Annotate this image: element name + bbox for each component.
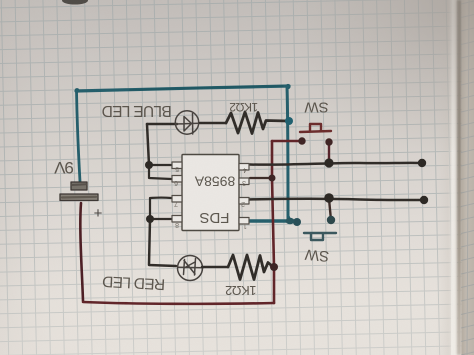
LED D1 blue circle (175, 111, 198, 134)
resistor R2 zigzag (228, 255, 272, 280)
node junction pins 5-6 (145, 161, 153, 169)
top edge smudge (62, 0, 88, 5)
labels (photo is upside-down: rotate each 180deg) (53, 99, 329, 298)
wire blue-led left corner (147, 124, 149, 165)
wire LED to resistor R1 (200, 122, 226, 125)
wire teal top rail (76, 86, 289, 91)
wire pin8 (150, 218, 172, 220)
LED D2 symbol (178, 259, 203, 276)
node SW1 terminal right (325, 138, 332, 145)
node SW2 stub on pin2 line (324, 193, 334, 203)
wire pin6 U (149, 165, 171, 179)
page crease (457, 0, 462, 355)
wire battery positive maroon drop (80, 203, 83, 301)
node pin4 line end terminal (418, 159, 426, 167)
paper beyond crease (462, 0, 474, 355)
LED D2 red circle (178, 256, 203, 281)
top-right corner shadow (300, 0, 474, 150)
IC U1 pins (left col 5,6,7,8 top-to-bottom; right col 4,3,2,1) (172, 162, 249, 224)
node SW1 terminal left (298, 137, 305, 144)
node R1 to teal net (285, 117, 293, 125)
node pin2 line end terminal (420, 196, 428, 204)
grid beyond crease (461, 0, 474, 355)
node SW2 terminal right (327, 216, 335, 224)
wire to blue LED (147, 123, 177, 126)
switch SW2 symbol (304, 233, 336, 240)
wire teal right drop (287, 86, 288, 219)
wire maroon to SW1 left (272, 140, 300, 143)
wire maroon right riser (272, 141, 274, 303)
node R2 to maroon net (270, 263, 278, 271)
resistor R1 zigzag (226, 112, 288, 134)
node SW1 stub on pin4 line (324, 158, 333, 167)
battery B1 small bar (71, 182, 87, 190)
wire pin3 (250, 177, 272, 179)
node pin3 to maroon net (269, 175, 276, 182)
wire pin7 (150, 198, 171, 219)
switch SW1 symbol (300, 124, 331, 132)
wire SW2 stub up (329, 199, 331, 220)
battery B1 wide bar (60, 194, 98, 201)
wire maroon bottom rail (83, 302, 274, 304)
LED D1 symbol (176, 114, 199, 135)
wire pin5 (149, 164, 171, 166)
wire pin1 teal (248, 219, 293, 222)
node SW2 terminal left (293, 218, 301, 226)
node teal top-left corner (75, 88, 80, 93)
IC U1 body (182, 155, 239, 231)
wire LED to resistor R2 (202, 266, 228, 269)
wire SW1 right stub (328, 144, 330, 162)
node teal top-right corner (285, 84, 290, 89)
node junction pins 7-8 (146, 215, 154, 223)
wire battery negative teal riser (77, 91, 81, 182)
node teal tee at SW2 (286, 218, 295, 224)
wire pin4 long (250, 163, 422, 165)
right edge pre-crease shading + highlight (436, 0, 457, 355)
grid fade overlay bottom (0, 200, 474, 355)
wire pin2 long (247, 199, 424, 200)
wire teal jog to switch SW2 (288, 216, 297, 222)
wire down to red LED (149, 219, 176, 266)
